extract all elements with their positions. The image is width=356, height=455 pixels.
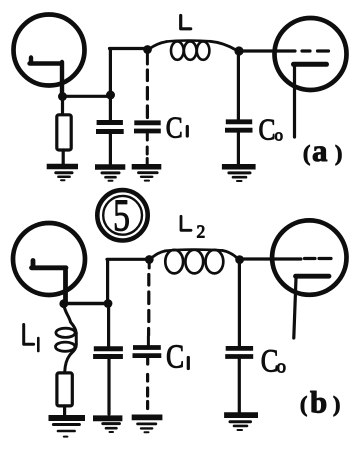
wire A to B xyxy=(62,95,111,98)
node F xyxy=(104,299,113,308)
figure number 5 circled xyxy=(97,190,147,240)
ground (under R1) xyxy=(47,164,78,170)
wire F up to rail corner xyxy=(106,261,109,304)
wire D down to Co xyxy=(237,53,240,120)
tube V3 (bottom-left triode envelope) xyxy=(13,223,85,295)
tube V4 cathode lead down xyxy=(294,278,296,338)
node B xyxy=(106,91,115,100)
wire H to tube V4 grid xyxy=(240,257,301,260)
capacitor C1 plates (dashed branch, bottom) xyxy=(133,348,162,356)
wire E to F xyxy=(64,302,108,305)
ground (under R2) xyxy=(49,415,86,421)
inductor L2 right lead xyxy=(223,251,238,259)
wire Co to ground (bottom) xyxy=(238,359,241,413)
wire R2 to ground xyxy=(63,406,66,415)
label L xyxy=(181,16,191,29)
tube V2 (top-right triode envelope) xyxy=(275,18,347,90)
ground (under Ck) xyxy=(95,164,125,170)
wire B up to rail corner xyxy=(109,50,112,95)
node G (C1 tap) xyxy=(145,255,154,264)
tube V1 (top-left triode envelope) xyxy=(14,15,85,86)
svg-text:2: 2 xyxy=(197,222,206,242)
inductor L right lead xyxy=(210,41,236,50)
inductor L1 exit lead xyxy=(65,333,77,372)
svg-text:5: 5 xyxy=(113,190,130,241)
wire G stub down xyxy=(148,261,151,268)
ground (under Co bottom) xyxy=(224,412,258,418)
ground (under Ci) xyxy=(132,164,162,170)
wire Ci dashed line xyxy=(146,70,149,118)
wire Ck to ground (bottom) xyxy=(107,359,110,414)
node A (top junction left) xyxy=(58,92,67,101)
wire Co to ground xyxy=(237,133,240,164)
node H (Co tap, bottom) xyxy=(235,255,244,264)
wire F down to bypass cap xyxy=(107,304,110,347)
inductor L1 loop 1 xyxy=(56,328,75,337)
wire C stub down xyxy=(146,51,149,64)
wire C1 dashed line xyxy=(147,275,150,336)
wire B down to bypass cap xyxy=(109,95,112,121)
capacitor Ci plates (dashed branch) xyxy=(134,123,161,131)
svg-text:o: o xyxy=(275,126,284,145)
ground (under Ck bottom) xyxy=(93,415,122,421)
inductor L loop 3 xyxy=(197,41,210,59)
label L2 xyxy=(181,216,191,230)
svg-text:C: C xyxy=(259,113,276,147)
ground (under C1) xyxy=(132,414,163,420)
tube V2 cathode lead down xyxy=(293,66,296,137)
capacitor Ck plates (left bypass, top circuit) xyxy=(96,123,124,132)
inductor L1 lead from node E xyxy=(64,306,76,333)
inductor L1 loop 2 xyxy=(55,342,74,351)
node D (Co tap) xyxy=(234,46,243,55)
inductor L top wire xyxy=(167,41,211,42)
svg-text:a: a xyxy=(312,133,328,168)
wire Ck to ground xyxy=(109,133,112,165)
wire C1 solid stub above plates xyxy=(147,336,150,345)
tube V4 (bottom-right triode envelope) xyxy=(272,220,346,294)
label L1 xyxy=(24,325,34,345)
capacitor Ck plates (left bypass, bottom circuit) xyxy=(93,349,123,357)
svg-text:): ) xyxy=(335,141,342,166)
inductor L2 loop 2 xyxy=(185,250,203,274)
inductor L2 top wire xyxy=(165,250,223,251)
resistor R1 (cathode resistor, top circuit) xyxy=(57,115,71,150)
wire R1 to ground xyxy=(62,150,65,165)
wire H down to Co xyxy=(238,262,241,346)
svg-text:(: ( xyxy=(303,141,310,166)
capacitor Co plates (top circuit) xyxy=(225,122,253,130)
inductor L2 loop 3 xyxy=(206,250,224,274)
svg-text:C: C xyxy=(166,111,183,145)
svg-text:C: C xyxy=(166,338,184,376)
tube V1 cathode bent lead xyxy=(30,58,63,96)
wire C1 below plates dashed xyxy=(146,359,149,409)
tube V2 grid dashes xyxy=(302,49,329,52)
resistor R2 (cathode resistor, bottom circuit) xyxy=(57,373,72,406)
inductor L2 loop 1 xyxy=(165,250,183,274)
wire rail left segment xyxy=(110,47,147,50)
inductor L2 left lead xyxy=(151,251,166,259)
svg-text:): ) xyxy=(333,392,340,417)
tube V2 cathode line xyxy=(294,62,327,67)
wire Ci below plates dashed xyxy=(146,133,149,164)
ground (under Co) xyxy=(222,164,256,170)
inductor L loop 1 xyxy=(171,41,184,59)
wire A down to R1 xyxy=(61,98,64,115)
svg-text:b: b xyxy=(310,385,327,420)
inductor L left lead xyxy=(149,42,167,49)
wire rail left segment (bottom) xyxy=(107,258,146,261)
inductor L loop 2 xyxy=(184,41,197,59)
svg-text:o: o xyxy=(277,357,287,378)
node E xyxy=(59,299,68,308)
tube V4 grid dashes xyxy=(305,257,332,260)
tube V3 cathode bent lead xyxy=(32,261,67,303)
wire D to tube V2 grid xyxy=(239,49,295,52)
tube V4 cathode line xyxy=(296,274,330,279)
svg-text:(: ( xyxy=(300,392,307,417)
node C (Ci tap) xyxy=(143,45,152,54)
capacitor Co plates (bottom circuit) xyxy=(225,348,253,356)
